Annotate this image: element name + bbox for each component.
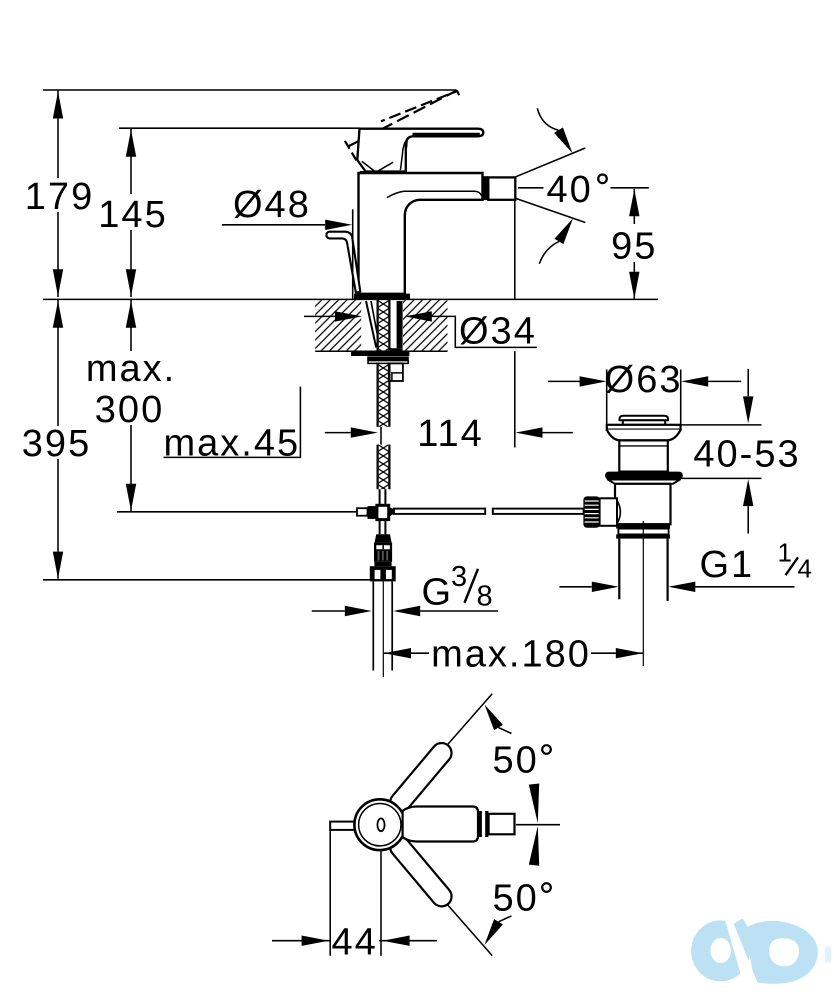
svg-text:300: 300 <box>95 389 164 431</box>
hole wedge line 1 <box>366 301 376 348</box>
DIMENSIONS <box>21 90 814 676</box>
lever underside shade <box>413 133 480 137</box>
svg-text:max.45: max.45 <box>164 423 301 465</box>
svg-text:Ø48: Ø48 <box>233 184 311 226</box>
arrow 50 lower on line <box>485 919 503 945</box>
countertop surface line <box>43 298 658 300</box>
ext line 50 upper <box>447 694 492 746</box>
rod clamp square <box>377 505 389 519</box>
svg-text:44: 44 <box>331 922 377 964</box>
body circle outer <box>354 799 405 850</box>
dim max.180 <box>384 652 643 654</box>
ext line 179 top <box>43 89 457 91</box>
hex collar <box>370 566 396 581</box>
lever capsule lower <box>390 837 451 906</box>
dim G3/8 <box>312 610 345 612</box>
dim 40deg leader <box>518 187 544 189</box>
pop-up rod right segment <box>493 509 584 514</box>
valve knurled knob <box>583 496 599 527</box>
svg-text:40: 40 <box>547 169 593 211</box>
nut waist <box>374 562 391 566</box>
valve bottom band 1 <box>616 524 670 528</box>
DRAIN VALVE <box>583 416 682 666</box>
body circle inner <box>359 804 401 846</box>
flex hose braid segment 2 <box>378 363 390 427</box>
dim G1 1/4 <box>560 586 592 588</box>
pop-up rod left segment <box>394 509 485 514</box>
hub base joint bar <box>360 171 406 174</box>
svg-text:Ø34: Ø34 <box>459 311 537 353</box>
dim 114 / max45 arrow line left <box>325 432 351 434</box>
dim 145 line <box>130 128 132 297</box>
hose side fitting step <box>392 373 403 381</box>
mounting nut <box>367 356 409 360</box>
arrows max300 <box>126 301 136 328</box>
valve side port <box>600 498 617 526</box>
svg-text:G: G <box>422 572 454 614</box>
ext line pop-up rod level <box>117 511 357 513</box>
flex hose braid segment 1 <box>378 300 390 351</box>
hole wedge line 2 <box>371 301 377 334</box>
TOP VIEW <box>272 694 560 964</box>
svg-text:50: 50 <box>493 878 539 920</box>
hose tube upper <box>380 489 386 505</box>
faucet body outline <box>359 173 483 294</box>
centre logo oval <box>377 818 384 831</box>
dim 114 arrow line right <box>543 432 573 434</box>
G3/8 thread lines <box>373 581 392 670</box>
countertop hatching left <box>315 300 361 351</box>
hose end ferrule <box>375 534 392 542</box>
dim max300 line <box>130 299 132 511</box>
dim 44 line <box>272 940 437 942</box>
hub inner v-line left <box>362 161 374 171</box>
ext lines 40-53 <box>676 425 762 479</box>
dashed raised-lever line upper <box>381 91 458 122</box>
aerator joint bar <box>483 176 488 200</box>
spray arc arrow lower <box>539 241 559 263</box>
valve tail pipe <box>619 539 667 601</box>
svg-text:114: 114 <box>417 413 484 455</box>
ext line bottom 395 <box>43 579 376 581</box>
arrows 145 <box>126 130 136 157</box>
valve top cap <box>620 416 669 421</box>
svg-text:40-53: 40-53 <box>693 434 800 476</box>
svg-text:145: 145 <box>98 194 167 236</box>
dim Ø34 <box>304 315 335 317</box>
svg-text:179: 179 <box>25 176 94 218</box>
svg-text:3: 3 <box>451 561 469 593</box>
dashed hub edge left <box>345 141 358 164</box>
hose axis line <box>382 581 384 677</box>
spout inner profile line <box>387 191 482 197</box>
ext line 50 lower <box>447 904 492 956</box>
valve ring below gasket <box>608 480 680 484</box>
ext line 44 left <box>329 821 331 956</box>
hub inner v-line right <box>378 162 393 171</box>
dim Ø63 <box>548 380 580 382</box>
dim Ø48 leader <box>222 224 325 226</box>
dim 95 line <box>633 189 635 299</box>
G3/8 swivel nut <box>374 542 392 561</box>
lever neck inner line <box>400 136 410 170</box>
valve gasket <box>605 472 683 480</box>
arrow 50 upper at centreline <box>529 784 539 824</box>
hose side fitting box <box>389 363 403 381</box>
svg-text:395: 395 <box>22 423 91 465</box>
rod clamp stub <box>357 508 368 516</box>
svg-text:50: 50 <box>493 740 539 782</box>
valve flange flare <box>607 430 681 441</box>
logo right loop <box>745 921 818 984</box>
valve upper cylinder <box>619 440 668 471</box>
countertop hatching right <box>403 300 448 351</box>
flex hose gap line <box>380 427 382 445</box>
logo edge sliver <box>825 947 832 963</box>
LOGO <box>691 916 831 984</box>
mounting washer <box>351 351 409 356</box>
base plate <box>354 294 410 300</box>
countertop underside line <box>315 350 447 352</box>
ext line 44 right <box>380 852 382 956</box>
logo diagonal band <box>730 919 775 979</box>
svg-text:G1: G1 <box>700 544 755 586</box>
valve bottom band 2 <box>616 534 670 538</box>
spray arc arrow upper <box>537 108 558 130</box>
dim 40-53 arrows <box>747 369 749 534</box>
svg-text:max.180: max.180 <box>431 634 591 676</box>
hose tube lower <box>380 520 386 535</box>
valve groove slot <box>618 529 668 535</box>
ext line 145 top <box>119 127 360 129</box>
lever end cap <box>489 814 515 835</box>
logo left ring <box>691 920 750 981</box>
spray ray lower <box>516 198 586 222</box>
pop-up rod top view <box>330 822 356 830</box>
arrow 50 lower at centreline <box>529 826 539 866</box>
svg-text:95: 95 <box>611 226 657 268</box>
aerator body <box>488 177 515 199</box>
valve flange rim <box>607 425 681 430</box>
rod clamp block <box>368 506 379 519</box>
lever joint bars <box>480 811 487 837</box>
lever capsule upper <box>390 743 451 812</box>
aerator drop line <box>514 200 516 447</box>
dashed raised-lever line lower <box>348 91 457 147</box>
rod clamp wedge <box>389 507 395 517</box>
svg-text:1: 1 <box>778 538 794 568</box>
svg-text:Ø63: Ø63 <box>605 359 683 401</box>
mounting nut lower band <box>368 361 408 364</box>
centreline right <box>516 824 560 826</box>
logo right loop hole <box>769 938 799 966</box>
spray ray upper <box>516 148 586 177</box>
dim max.45 label box <box>164 387 301 458</box>
dim 179 line <box>57 90 59 297</box>
arrow 50 upper on line <box>485 705 503 731</box>
dim 395 line <box>57 299 59 578</box>
pop-up rod lever <box>326 232 360 293</box>
arrows 395 <box>53 301 63 328</box>
lever handle <box>357 129 483 172</box>
arrows 179 <box>53 92 63 119</box>
ext line Ø48 <box>352 209 354 299</box>
ext lines Ø63 <box>607 370 681 426</box>
valve body <box>615 484 671 524</box>
logo opening channel <box>724 916 758 984</box>
mounting bolt <box>397 301 403 348</box>
svg-text:8: 8 <box>477 581 495 613</box>
svg-text:max.: max. <box>86 348 176 390</box>
dim 95 top tick <box>611 187 649 189</box>
dashed hub swing arc <box>399 130 407 167</box>
svg-text:4: 4 <box>798 554 814 584</box>
flex hose braid segment 3 <box>378 445 390 490</box>
UNDER COUNTER <box>43 299 658 677</box>
valve axis line <box>642 521 644 666</box>
FRONT VIEW <box>326 91 585 300</box>
lever arm top view <box>403 807 478 842</box>
dashed lever tip cap <box>457 91 459 96</box>
mounting bolt foot <box>390 348 402 351</box>
